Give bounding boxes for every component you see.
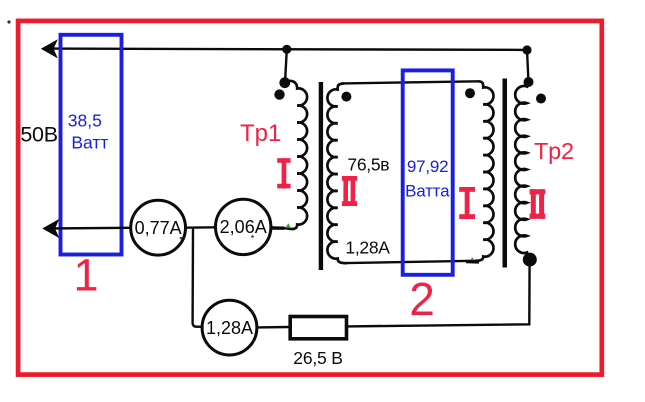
winding mark II (Tp2 secondary): [530, 189, 546, 219]
svg-text:Ватта: Ватта: [405, 182, 450, 201]
node: Tp1 primary top junction: [279, 77, 290, 88]
arrow to source (middle): [42, 219, 59, 238]
transformer Tp2 primary winding: [475, 81, 494, 261]
ammeter A1 0,77А: [131, 200, 186, 255]
winding mark I (Tp2 primary): [459, 187, 475, 219]
svg-text:97,92: 97,92: [407, 157, 449, 176]
ammeter A2 2,06А: [216, 199, 271, 254]
stray mark: [7, 20, 10, 23]
svg-text:Tp1: Tp1: [240, 120, 281, 147]
resistor (load): [290, 317, 346, 339]
winding mark I (Tp1 primary): [277, 158, 290, 188]
wire top bus (source to Tp2 secondary): [45, 49, 527, 50]
transformer Tp2 secondary winding: [515, 82, 529, 258]
svg-text:1: 1: [73, 250, 98, 301]
svg-text:50В: 50В: [20, 122, 57, 146]
node: Tp2 secondary top junction: [524, 77, 534, 87]
svg-text:1,28А: 1,28А: [206, 318, 253, 338]
svg-text:38,5: 38,5: [68, 110, 102, 130]
transformer Tp2 core: [503, 79, 508, 268]
node: Tp1 secondary polarity dot: [341, 92, 351, 102]
winding mark II (Tp1 secondary): [342, 176, 357, 206]
wire A1 to A2: [186, 226, 216, 229]
svg-text:Tp2: Tp2: [534, 138, 574, 164]
node: top junction at Tp2: [522, 45, 531, 54]
wire Tp1 secondary bottom to Tp2 primary bottom: [346, 261, 474, 263]
wire A3 to resistor: [257, 326, 289, 329]
wire resistor to Tp2 secondary bottom: [348, 260, 530, 327]
node: Tp2 secondary polarity dot: [536, 94, 546, 104]
svg-text:2,06А: 2,06А: [220, 217, 267, 237]
svg-text:Ватт: Ватт: [71, 133, 108, 153]
arrow to source (top): [41, 39, 58, 58]
svg-text:1,28А: 1,28А: [345, 237, 390, 257]
wire drop from top bus to Tp1 primary: [285, 49, 287, 79]
wire drop from top bus to Tp2 secondary: [527, 50, 528, 80]
transformer Tp1 secondary winding: [327, 83, 347, 263]
ammeter A3 1,28А: [202, 300, 257, 355]
node: Tp1 primary polarity dot: [274, 89, 284, 99]
wire Tp1 secondary top to Tp2 primary top: [343, 81, 479, 83]
node: Tp2 secondary bottom junction (big dot): [523, 253, 537, 267]
green artifact mark near Tp2 primary bottom: [470, 257, 475, 262]
svg-text:0,77А: 0,77А: [135, 218, 182, 238]
svg-text:26,5 В: 26,5 В: [293, 348, 342, 368]
transformer Tp1 primary winding: [271, 81, 307, 229]
node: Tp2 primary polarity dot: [465, 88, 475, 98]
green artifact mark near Tp1 primary bottom: [285, 223, 290, 228]
node: top junction at Tp1: [282, 45, 291, 54]
transformer Tp1 core: [319, 82, 323, 270]
svg-text:76,5в: 76,5в: [347, 155, 389, 175]
measurement box 1 (blue): [61, 35, 122, 255]
wire T-junction drop to ammeter A3: [193, 229, 203, 327]
wire A2 to Tp1 primary bottom: [271, 226, 284, 229]
svg-text:2: 2: [409, 273, 435, 325]
wire arrow to ammeter A1: [46, 227, 131, 230]
measurement box 2 (blue): [403, 70, 453, 274]
